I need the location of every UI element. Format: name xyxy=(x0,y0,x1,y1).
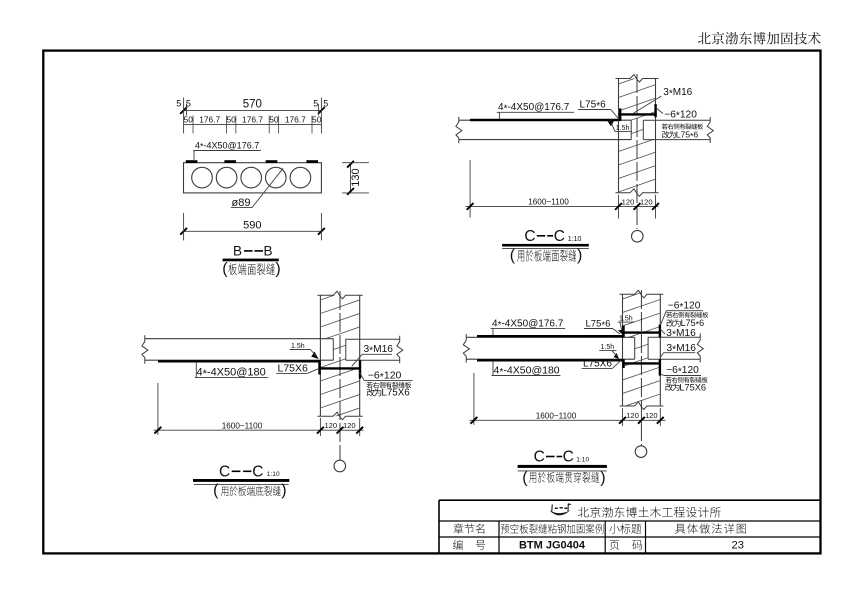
svg-text:3*​M16: 3*​M16 xyxy=(667,343,697,355)
D4 wall break bottom xyxy=(620,402,664,410)
D3 potential right-side slab (thin outline) xyxy=(346,338,400,340)
D2 wall break top xyxy=(616,75,659,83)
svg-text:3*​M16: 3*​M16 xyxy=(666,328,696,340)
svg-text:): ) xyxy=(281,482,286,499)
D2 slab outline left of wall xyxy=(459,119,631,121)
svg-text:23: 23 xyxy=(731,540,743,552)
D4 wall break top xyxy=(620,290,664,298)
D3 angle L75X6 vertical leg at wall face xyxy=(318,360,320,374)
svg-text:−6*​120: −6*​120 xyxy=(664,109,697,121)
svg-text:5: 5 xyxy=(323,99,328,109)
svg-text:−6*​120: −6*​120 xyxy=(668,301,701,313)
svg-text:176.7: 176.7 xyxy=(199,115,220,125)
svg-text:B: B xyxy=(233,244,242,259)
D4 top note if right slab cracked use L75*6 xyxy=(666,312,708,318)
svg-text:1.5h: 1.5h xyxy=(616,125,630,132)
D4 top angle L75*6 vertical leg xyxy=(622,326,624,338)
svg-text:): ) xyxy=(275,261,280,278)
B-B bonded steel plates on top of slab (4 black marks) xyxy=(186,160,198,163)
svg-text:L75*​6: L75*​6 xyxy=(580,100,607,112)
svg-text:BTM JG0404: BTM JG0404 xyxy=(519,540,586,552)
svg-text:176.7: 176.7 xyxy=(242,115,263,125)
svg-text:50: 50 xyxy=(184,115,194,125)
outer border frame xyxy=(43,51,820,554)
svg-text:C: C xyxy=(563,449,574,466)
D4 bottom angle L75X6 vertical leg xyxy=(622,359,624,368)
svg-text:1:10: 1:10 xyxy=(576,456,589,463)
D3 note if right slab cracked use L75X6 xyxy=(366,382,411,388)
svg-text:4*​-4X50@176.7: 4*​-4X50@176.7 xyxy=(492,319,564,331)
svg-text:(: ( xyxy=(522,469,528,486)
svg-text:50: 50 xyxy=(269,115,279,125)
B-B right height dimension 130 xyxy=(350,163,352,193)
B-B top dimension 570 line xyxy=(183,109,322,111)
title block outer lines xyxy=(439,499,821,501)
svg-text:50: 50 xyxy=(312,115,322,125)
svg-text:B: B xyxy=(264,244,273,259)
D3 wall break bottom xyxy=(317,412,362,420)
D4 wall face lines xyxy=(622,294,624,406)
svg-text:L75X6: L75X6 xyxy=(679,382,706,392)
D2 axis bubble circle xyxy=(632,230,644,242)
svg-text:(: ( xyxy=(213,482,219,499)
svg-text:L75X6: L75X6 xyxy=(583,359,612,370)
D2 slab break mark left end xyxy=(456,117,462,143)
svg-text:L75*​6: L75*​6 xyxy=(586,319,611,331)
svg-text:(: ( xyxy=(222,261,228,278)
title block row2 captions xyxy=(454,524,485,534)
svg-text:L75*​6: L75*​6 xyxy=(681,318,705,329)
svg-text:5: 5 xyxy=(176,99,181,109)
svg-text:L75*​6: L75*​6 xyxy=(676,130,699,141)
svg-text:3*​M16: 3*​M16 xyxy=(663,87,692,99)
svg-text:): ) xyxy=(577,247,582,264)
svg-text:C: C xyxy=(554,228,565,245)
D4 top weld fillet xyxy=(618,330,624,335)
svg-text:120: 120 xyxy=(622,197,635,206)
svg-text:L75X6: L75X6 xyxy=(278,363,309,375)
D3 dimension line 1600~1100 / 120 / 120 xyxy=(157,383,159,435)
D4 slab outline left of wall xyxy=(466,336,635,338)
B-B slab outline xyxy=(184,163,322,193)
D2 plate -6*120 across wall top xyxy=(619,113,657,115)
D4 slab break mark left end xyxy=(463,334,469,363)
D4 bottom bonded plate 4*-4X50@180 xyxy=(477,359,623,361)
svg-text:130: 130 xyxy=(350,168,362,186)
svg-text:L75X6: L75X6 xyxy=(381,388,410,399)
svg-text:5: 5 xyxy=(313,99,318,109)
svg-text:C: C xyxy=(524,228,535,245)
D2 right side vertical plate leg xyxy=(654,104,656,117)
svg-text:C: C xyxy=(534,449,545,466)
svg-text:590: 590 xyxy=(243,220,261,232)
D2 angle L75*6 vertical leg at wall face xyxy=(619,108,621,121)
D4 embedment notch verticals xyxy=(634,337,636,359)
D2 dimension line 1600~1100 / 120 / 120 xyxy=(469,160,471,218)
svg-text:5: 5 xyxy=(186,99,191,109)
svg-text:120: 120 xyxy=(343,421,356,430)
svg-text:C: C xyxy=(252,464,263,481)
D4 axis bubble circle xyxy=(635,446,647,458)
svg-text:C: C xyxy=(219,464,230,481)
D2 weld fillet at plate end xyxy=(608,121,614,126)
D2 label 1.5h with leader xyxy=(611,123,615,131)
company logo (small boat) xyxy=(550,503,572,515)
svg-text:570: 570 xyxy=(243,98,262,110)
D4 dimension line 1600~1100 / 120 / 120 xyxy=(473,373,475,425)
svg-text:(: ( xyxy=(510,247,516,264)
D2 wall axis line xyxy=(636,74,638,229)
D3 wall face lines xyxy=(319,295,321,416)
title block row3: number and page xyxy=(453,540,463,550)
svg-text:120: 120 xyxy=(324,421,337,430)
title block row1: design institute name xyxy=(578,507,721,518)
D4 bottom note if right slab cracked use L75X6 xyxy=(666,377,708,383)
D4 top bonded plate 4*-4X50@176.7 xyxy=(477,335,623,337)
D4 wall axis line xyxy=(640,290,642,446)
title block column dividers xyxy=(498,521,500,553)
D3 slab outline left of wall xyxy=(145,338,333,340)
D3 plate -6*120 under wall xyxy=(319,367,362,369)
svg-text:50: 50 xyxy=(226,115,236,125)
B-B second dimension line 50/176.7 spacing xyxy=(184,123,322,125)
D2 note if right slab cracked use L75*6 xyxy=(662,124,703,130)
svg-text:1.5h: 1.5h xyxy=(291,343,305,350)
D3 wall axis line xyxy=(339,291,341,460)
D3 wall break top xyxy=(317,291,362,299)
svg-text:4*​-4X50@176.7: 4*​-4X50@176.7 xyxy=(195,140,259,151)
svg-text:120: 120 xyxy=(645,411,658,420)
B-B bottom dimension 590 xyxy=(183,230,322,232)
D2 potential right-side slab (thin outline) xyxy=(643,119,710,121)
svg-text:): ) xyxy=(600,469,605,486)
page header text: company name top right xyxy=(698,32,821,45)
D3 right side vertical plate leg xyxy=(359,360,361,378)
svg-text:176.7: 176.7 xyxy=(285,115,306,125)
svg-text:1.5h: 1.5h xyxy=(601,344,615,351)
D3 embedment notch verticals xyxy=(332,339,334,361)
svg-text:120: 120 xyxy=(626,411,639,420)
D2 embedment notch verticals in wall xyxy=(630,120,632,139)
D4 top plate -6*120 across wall xyxy=(623,331,662,333)
svg-text:1:10: 1:10 xyxy=(267,471,280,478)
svg-text:120: 120 xyxy=(640,197,653,206)
svg-text:1600~1100: 1600~1100 xyxy=(222,421,263,430)
D2 bonded plate 4*-4X50@176.7 on slab top xyxy=(470,119,619,121)
D2 wall face lines xyxy=(618,79,620,193)
B-B hollow cores (5 circles) xyxy=(192,167,213,188)
svg-text:−6*​120: −6*​120 xyxy=(368,370,402,384)
D3 axis bubble circle xyxy=(334,460,346,472)
D3 slab break mark left end xyxy=(142,335,148,364)
D3 weld fillet at plate end xyxy=(311,352,318,359)
D4 top right vertical plate leg xyxy=(659,325,661,338)
svg-text:1600~1100: 1600~1100 xyxy=(528,198,569,207)
D4 bottom right vertical plate leg xyxy=(659,359,661,375)
svg-text:1:10: 1:10 xyxy=(568,236,582,243)
D4 potential right-side slab (thin outline) xyxy=(648,336,700,338)
D4 bottom plate -6*120 under wall xyxy=(623,362,662,364)
D4 bottom weld fillet xyxy=(614,353,619,359)
svg-text:1600~1100: 1600~1100 xyxy=(536,411,577,420)
D2 wall break bottom xyxy=(616,189,659,197)
D3 bonded plate 4*-4X50@180 under slab xyxy=(158,360,320,362)
